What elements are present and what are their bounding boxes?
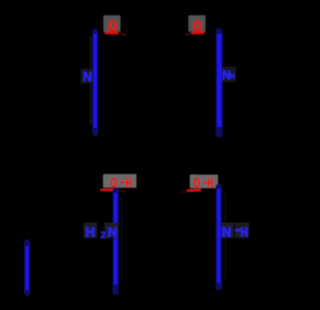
bond N-N far bottom-left <box>26 246 29 290</box>
bond C=O top-right (dark half) <box>185 33 192 35</box>
amine N-H label: halos <box>222 223 235 239</box>
wire: far left lower ring <box>27 178 60 304</box>
wire: ring bonds upper left <box>60 130 95 198</box>
svg-text:H: H <box>85 225 95 240</box>
wire: lower bonds <box>95 172 218 198</box>
bond C=O top-left (dark half) <box>118 33 127 35</box>
bond C=N-N lower-left <box>114 193 118 285</box>
bond N=N upper-right <box>217 34 222 127</box>
bond C-O right (dark half) <box>182 191 188 193</box>
bond C=N-N lower-right (glow) <box>216 187 222 288</box>
svg-text:H: H <box>230 74 235 81</box>
carbonyl O top-right: halo box <box>188 15 205 32</box>
bond N=N upper-right (glow) <box>216 32 223 135</box>
bond C=N-N lower-left (glow) <box>112 191 118 293</box>
svg-text:2: 2 <box>100 230 105 241</box>
hydroxyl O-H right: halo box <box>190 175 218 189</box>
bond C-O right (red half) <box>187 189 201 192</box>
bond C-O left (dark half) <box>117 190 126 192</box>
bond double-line (dark) beside lower-left C=N <box>120 197 122 281</box>
svg-text:H: H <box>125 176 131 190</box>
svg-text:H: H <box>241 225 248 240</box>
invisible carbon skeleton (black bonds on black background) <box>27 128 219 304</box>
N atom label upper-left: halo <box>81 69 94 84</box>
bond N=N upper-left <box>93 34 96 128</box>
svg-text:N: N <box>83 70 92 84</box>
amine H2N label: halos <box>84 223 98 239</box>
svg-text:N: N <box>222 225 232 240</box>
bond C-O left (red half) <box>101 188 118 191</box>
wire: ring bonds upper right <box>190 128 219 172</box>
hydroxyl O-H right: dash <box>203 181 207 184</box>
svg-text:N: N <box>108 225 118 240</box>
bond double-line (dark) beside upper-left N=N <box>90 37 92 124</box>
bond N=N upper-left (glow) <box>92 32 98 134</box>
hydroxyl O-H left: dash <box>120 181 124 184</box>
bond C=O top-right (red half) <box>192 31 205 34</box>
bond C=N-N lower-right <box>217 189 221 283</box>
bond C=O top-left (red half) <box>105 31 119 34</box>
wire: central bonds <box>95 130 190 150</box>
hydroxyl O-H left: halo box <box>103 174 137 188</box>
NH atom label upper-right: halo <box>222 67 237 83</box>
carbonyl O top-left: halo box <box>103 15 120 32</box>
bond double-line (dark) beside lower-right C=N <box>224 193 226 279</box>
bond N-N far bottom-left (glow) <box>24 242 30 293</box>
svg-text:H: H <box>207 177 213 191</box>
